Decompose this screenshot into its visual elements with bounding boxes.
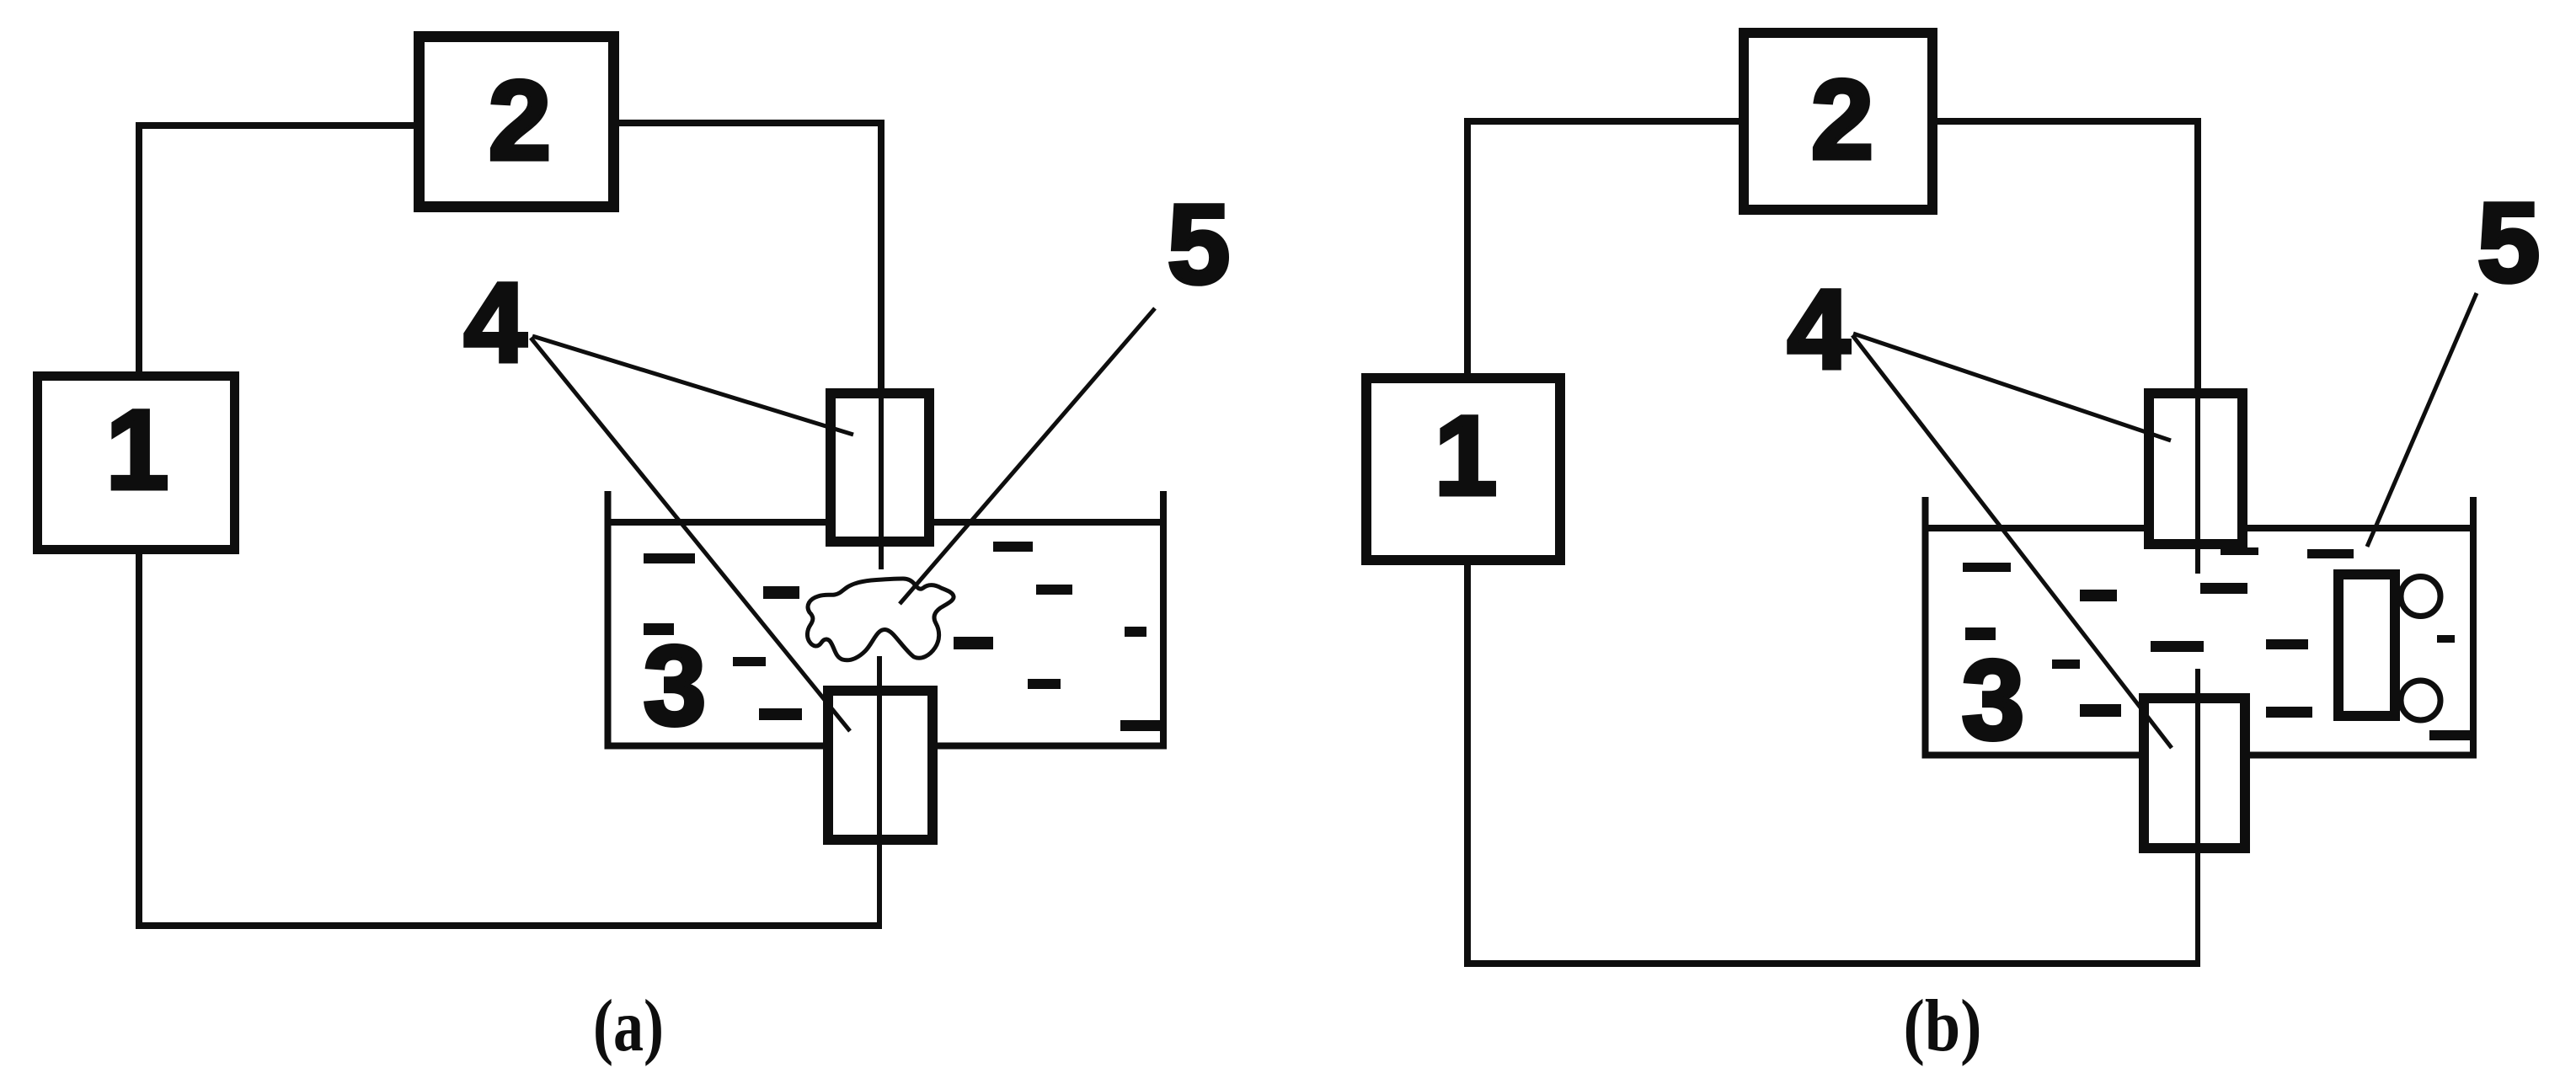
svg-text:4: 4 (464, 260, 527, 386)
svg-text:3: 3 (1962, 638, 2025, 763)
leader line 4a to top electrode (532, 336, 853, 435)
tank 3b left wall (1922, 497, 1929, 759)
component box 2a (420, 37, 614, 207)
svg-text:1: 1 (1435, 393, 1498, 519)
component box 2b (1744, 33, 1932, 210)
svg-text:2: 2 (1811, 57, 1874, 183)
electrode 4b bottom (2144, 698, 2245, 848)
membrane unit 5b bottom roller (2401, 681, 2440, 720)
membrane unit 5b body (2338, 574, 2395, 716)
svg-text:5: 5 (1168, 182, 1231, 307)
tank 3a water line (605, 519, 1168, 526)
wire: box1b top to box2b left (1467, 121, 1739, 373)
svg-text:(a): (a) (593, 985, 664, 1067)
wire: box1a bottom, bottom rail, up through bottom electrode (139, 554, 882, 926)
svg-text:1: 1 (106, 387, 169, 513)
electrode 4a top (831, 393, 929, 542)
tank 3b right wall (2470, 497, 2477, 759)
precipitate blob 5a (807, 579, 954, 660)
svg-text:4: 4 (1788, 267, 1851, 392)
tank 3a left wall (605, 491, 612, 750)
liquid dashes (a) (644, 542, 1160, 731)
electrode 4b top (2149, 393, 2242, 544)
tank 3b water line (1922, 525, 2477, 531)
tank 3a right wall (1160, 491, 1167, 750)
leader line 4a to bottom electrode (531, 338, 850, 731)
svg-text:2: 2 (489, 58, 552, 184)
wire stub through top electrode into liquid (b) (2195, 388, 2200, 574)
component box 1a (38, 376, 235, 550)
svg-text:5: 5 (2477, 180, 2541, 306)
electrode 4a bottom (828, 691, 933, 840)
leader line 5a to blob (900, 308, 1155, 604)
leader line 4b to top electrode (1853, 334, 2171, 441)
tank 3b bottom (1922, 752, 2477, 759)
svg-text:(b): (b) (1904, 985, 1982, 1067)
membrane unit 5b top roller (2401, 577, 2440, 617)
wire: box2a right through top electrode into liquid (619, 123, 881, 388)
wire stub through top electrode into liquid (a) (879, 388, 884, 569)
leader line 4b to bottom electrode (1852, 335, 2172, 748)
wire stub through bottom electrode (a) (877, 656, 882, 928)
wire: box1a top to box2a left (139, 125, 414, 371)
wire stub through bottom electrode (b) (2195, 669, 2200, 966)
wire: box2b right through top electrode into liquid (1937, 121, 2198, 388)
svg-text:3: 3 (644, 623, 707, 749)
wire: box1b bottom, bottom rail, up through bottom electrode (1467, 563, 2200, 964)
tank 3a bottom (605, 743, 1168, 750)
leader line 5b to membrane unit (2367, 293, 2477, 547)
liquid dashes (b) (1963, 547, 2472, 740)
component box 1b (1366, 378, 1560, 560)
